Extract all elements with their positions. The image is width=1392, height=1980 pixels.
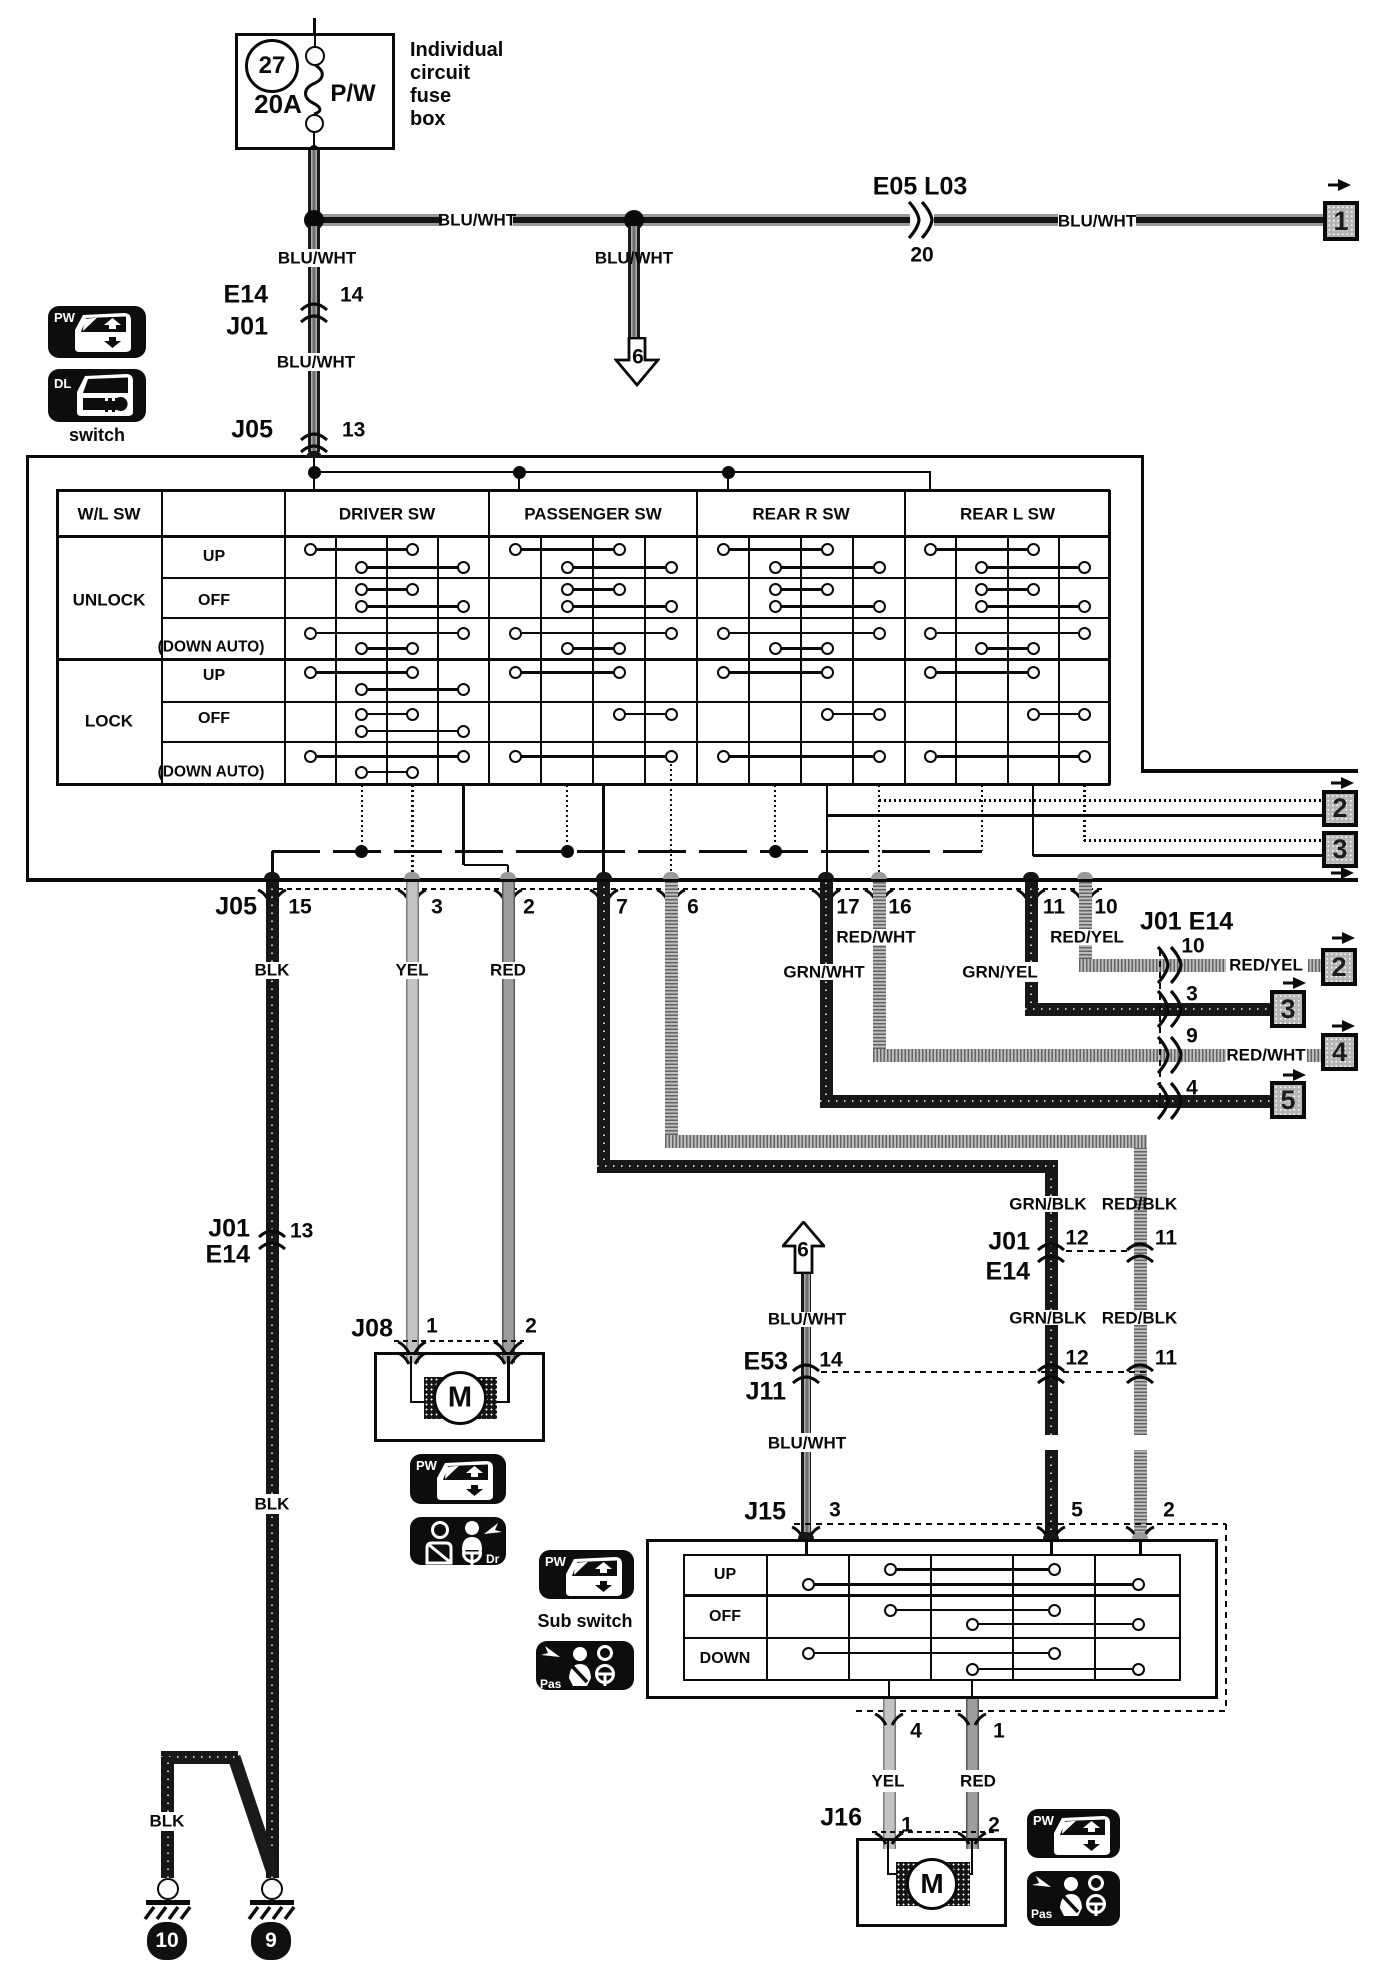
svg-text:PW: PW: [1033, 1813, 1055, 1828]
svg-text:PW: PW: [545, 1554, 567, 1569]
svg-text:PW: PW: [416, 1458, 438, 1473]
svg-text:Pas: Pas: [1031, 1907, 1053, 1921]
svg-text:Dr: Dr: [486, 1552, 500, 1566]
svg-text:DL: DL: [54, 376, 71, 391]
svg-text:PW: PW: [54, 310, 76, 325]
svg-text:Pas: Pas: [540, 1677, 562, 1691]
